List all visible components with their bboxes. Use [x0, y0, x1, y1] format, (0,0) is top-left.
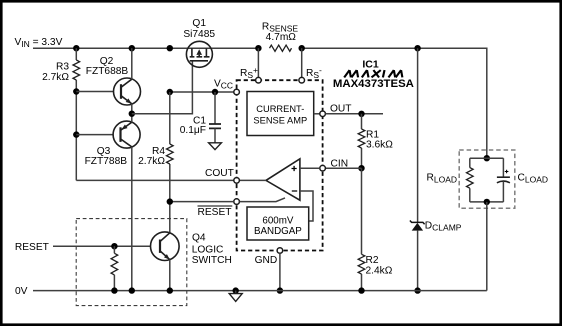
wire load to 0V — [486, 202, 488, 291]
svg-text:0V: 0V — [15, 286, 28, 297]
wire OUT stub — [325, 113, 383, 115]
svg-text:2.7kΩ: 2.7kΩ — [42, 72, 69, 83]
wire Q2 base — [76, 91, 114, 93]
label IC1 — [362, 59, 379, 71]
junction node RSENSE left — [255, 45, 261, 51]
junction R1/R2/CIN — [358, 165, 364, 171]
junction C1 tap — [212, 89, 218, 95]
pin OUT — [320, 104, 352, 117]
junction GND/0V — [277, 287, 283, 293]
svg-text:R2: R2 — [366, 255, 379, 266]
junction Q3 base — [73, 131, 79, 137]
svg-text:600mV: 600mV — [262, 215, 294, 226]
junction Q2/Q3 emitters node — [129, 111, 135, 117]
wire RSENSE left to RS+ terminal — [257, 48, 259, 77]
junction node VIN/Q2 collector — [129, 45, 135, 51]
wire load top — [470, 157, 504, 159]
junction node OUT/DCLAMP — [414, 45, 420, 51]
IC1 dashed boundary box — [237, 80, 323, 250]
junction 0V/pulldown — [111, 287, 117, 293]
svg-text:RESET: RESET — [198, 207, 232, 218]
wire CIN — [325, 167, 361, 169]
junction 0V/R2 — [358, 287, 364, 293]
wire GND down — [279, 253, 281, 290]
wire OUT rail top — [302, 48, 487, 158]
svg-text:VIN = 3.3V: VIN = 3.3V — [15, 37, 63, 49]
resistor R1 — [358, 114, 393, 168]
amp block CURRENT-SENSE AMP — [247, 92, 314, 136]
transistor Q1 Si7485 — [183, 18, 215, 67]
junction R4/VCC — [167, 89, 173, 95]
svg-text:CIN: CIN — [331, 159, 349, 170]
wire VIN rail — [33, 47, 258, 49]
svg-text:0.1μF: 0.1μF — [180, 125, 206, 136]
wire comparator minus to bandgap — [300, 191, 313, 221]
svg-text:3.6kΩ: 3.6kΩ — [366, 140, 393, 151]
wire VCC — [170, 91, 234, 93]
svg-text:2.7kΩ: 2.7kΩ — [138, 156, 165, 167]
junction 0V/Q3 — [129, 287, 135, 293]
bandgap block 600mV — [247, 207, 309, 240]
svg-text:CURRENT-: CURRENT- — [256, 104, 304, 114]
wire Q3 base — [76, 134, 113, 136]
ground symbol 0V — [229, 291, 242, 302]
transistor Q3 FZT788B — [85, 114, 141, 291]
pin GND — [255, 248, 283, 266]
svg-text:SWITCH: SWITCH — [192, 255, 232, 266]
svg-text:BANDGAP: BANDGAP — [254, 226, 302, 237]
transistor Q2 FZT688B — [86, 48, 141, 114]
junction 0V/ground — [233, 287, 239, 293]
load dashed box — [459, 150, 515, 208]
svg-text:R3: R3 — [56, 61, 69, 72]
svg-text:GND: GND — [255, 255, 278, 266]
junction node VIN/R3 — [73, 45, 79, 51]
svg-text:LOGIC: LOGIC — [192, 245, 224, 256]
svg-text:2.4kΩ: 2.4kΩ — [366, 265, 393, 276]
svg-text:4.7mΩ: 4.7mΩ — [266, 32, 297, 43]
wire COUT to bases — [76, 179, 234, 181]
transistor Q4 logic switch — [151, 232, 232, 291]
svg-text:Q1: Q1 — [192, 18, 206, 29]
wire comparator plus to CIN — [300, 167, 320, 169]
svg-text:OUT: OUT — [330, 104, 352, 115]
pin RS+ — [240, 65, 261, 83]
wire RESETb internal — [239, 198, 285, 202]
svg-text:FZT688B: FZT688B — [86, 66, 129, 77]
junction R4/RESET — [167, 198, 173, 204]
svg-text:RESET: RESET — [15, 242, 49, 253]
resistor RLOAD — [427, 158, 474, 202]
svg-text:Si7485: Si7485 — [183, 29, 215, 40]
pin VCC — [214, 79, 239, 95]
junction RESET/pulldown — [111, 243, 117, 249]
wire RSENSE right to RS- terminal — [301, 48, 303, 77]
logo MAXIM — [344, 70, 402, 77]
wire amp to OUT pin — [314, 113, 320, 115]
svg-text:SENSE AMP: SENSE AMP — [253, 115, 307, 125]
resistor R3 — [42, 48, 79, 180]
svg-text:COUT: COUT — [205, 168, 234, 179]
label 0V — [15, 286, 28, 297]
svg-text:RLOAD: RLOAD — [427, 173, 458, 185]
diode DCLAMP zener — [410, 48, 462, 290]
svg-text:IC1: IC1 — [362, 59, 379, 71]
resistor RSENSE 4.7mOhm — [262, 21, 299, 51]
svg-text:MAX4373TESA: MAX4373TESA — [333, 78, 414, 90]
ground symbol C1 — [209, 143, 222, 150]
svg-text:FZT788B: FZT788B — [85, 156, 128, 167]
net VIN label — [15, 37, 63, 49]
resistor R2 — [358, 168, 393, 290]
junction DCLAMP/0V — [414, 287, 420, 293]
resistor RESET pulldown — [111, 246, 118, 290]
pin RS- — [299, 65, 322, 83]
op-amp comparator — [266, 159, 300, 200]
junction OUT/R1 — [358, 111, 364, 117]
svg-text:DCLAMP: DCLAMP — [425, 220, 462, 232]
svg-text:VCC: VCC — [214, 79, 233, 91]
junction node RSENSE right — [299, 45, 305, 51]
wire 0V rail — [33, 290, 487, 292]
wire RESETb external to R4 — [170, 201, 234, 203]
wire emitters to Q1 gate — [132, 61, 193, 114]
pin COUT — [205, 168, 239, 183]
wire load bottom — [470, 201, 504, 203]
junction Q2 base — [73, 88, 79, 94]
pin RESETb — [198, 199, 240, 218]
junction load bottom — [484, 199, 490, 205]
wire comparator out to COUT pin — [239, 179, 266, 181]
junction node VIN/R4 — [167, 45, 173, 51]
svg-text:Q4: Q4 — [192, 233, 206, 244]
capacitor C1 0.1uF — [180, 92, 221, 143]
junction load top — [484, 155, 490, 161]
capacitor CLOAD — [497, 158, 548, 202]
pin CIN — [320, 159, 348, 172]
label RESET input — [15, 242, 49, 253]
svg-text:CLOAD: CLOAD — [518, 173, 549, 185]
resistor R4 — [138, 92, 173, 233]
label MAX4373TESA — [333, 78, 414, 90]
wire RESET input — [53, 245, 151, 247]
logic switch dashed box — [76, 219, 187, 306]
junction 0V/Q4 — [167, 287, 173, 293]
